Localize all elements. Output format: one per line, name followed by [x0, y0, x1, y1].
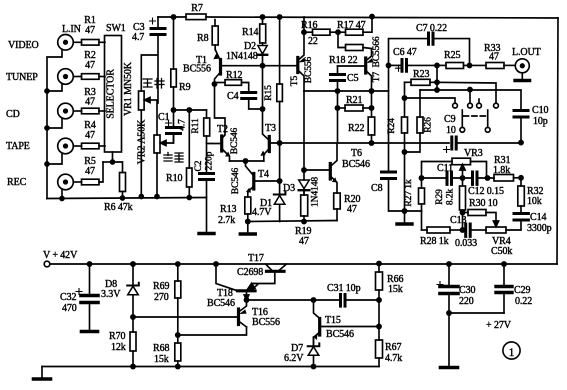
- ground C30: [448, 313, 450, 366]
- svg-text:R18 22: R18 22: [329, 55, 358, 66]
- svg-text:TAPE: TAPE: [6, 141, 30, 152]
- svg-text:C2: C2: [194, 160, 204, 171]
- svg-text:47: 47: [347, 204, 357, 215]
- svg-text:22: 22: [308, 36, 318, 47]
- wire bottom of first stage: [248, 221, 337, 222]
- ground first stage: [247, 222, 249, 233]
- svg-text:C30: C30: [459, 285, 475, 296]
- node T5 T7 emitter bus to D3: [303, 91, 305, 170]
- switch contact circles: [453, 103, 458, 108]
- svg-text:BC546: BC546: [207, 298, 235, 309]
- resistor R25: [437, 64, 446, 66]
- node rail-R17: [370, 15, 374, 19]
- wiper VR1 arrow: [149, 99, 157, 101]
- svg-text:8.2k: 8.2k: [446, 189, 456, 206]
- svg-text:10: 10: [446, 125, 456, 136]
- wire selector output to volume: [156, 100, 158, 135]
- wire T16 emitter bus: [178, 327, 247, 335]
- wire T5 T7 emitter bus: [304, 90, 389, 92]
- svg-text:1.8k: 1.8k: [493, 165, 510, 176]
- wire contact stub: [469, 90, 471, 104]
- svg-text:VIDEO: VIDEO: [8, 40, 39, 51]
- resistor R27: [419, 188, 425, 204]
- svg-text:R28 1k: R28 1k: [420, 236, 449, 247]
- svg-text:+ 27V: + 27V: [486, 320, 512, 331]
- resistor R8: [214, 20, 216, 26]
- svg-text:R25: R25: [444, 50, 460, 61]
- svg-text:BC556: BC556: [252, 317, 280, 328]
- node R15 feedback line: [278, 141, 282, 145]
- svg-text:1N4148: 1N4148: [311, 177, 321, 207]
- resistor R20: [334, 193, 341, 209]
- svg-text:15k: 15k: [388, 284, 403, 295]
- node D2 base line: [260, 64, 264, 68]
- node C10 bottom on feedback line: [519, 141, 523, 145]
- wiper VR2 arrow to C1: [166, 136, 174, 143]
- svg-text:R69: R69: [153, 281, 169, 292]
- node rail-R9: [171, 15, 175, 19]
- svg-text:R67: R67: [385, 342, 401, 353]
- resistor R68 15k: [176, 333, 180, 337]
- svg-text:0.033: 0.033: [455, 238, 477, 249]
- svg-text:R68: R68: [153, 343, 169, 354]
- jack L.OUT: [515, 59, 529, 73]
- wire switch feed upper: [437, 82, 496, 103]
- jack TAPE input: [58, 138, 74, 154]
- svg-text:REC: REC: [7, 177, 27, 188]
- svg-text:R12: R12: [226, 70, 242, 81]
- svg-text:C5: C5: [347, 73, 359, 84]
- svg-text:BC556: BC556: [183, 64, 211, 75]
- terminal V+42V: [44, 261, 50, 267]
- svg-text:15k: 15k: [154, 354, 169, 365]
- svg-text:BC546: BC546: [342, 159, 370, 170]
- wire T3 collector chain: [263, 66, 268, 139]
- ground L.OUT: [521, 73, 523, 79]
- svg-text:R17 47: R17 47: [337, 20, 366, 31]
- jack TUNEP input: [58, 69, 74, 85]
- resistor R33 47: [486, 63, 504, 69]
- capacitor C2: [200, 174, 214, 180]
- resistor R19: [303, 189, 305, 195]
- resistor R23: [405, 81, 412, 83]
- label volume 音量: [164, 153, 183, 163]
- svg-text:1N4148: 1N4148: [226, 51, 258, 62]
- svg-text:BC556: BC556: [304, 56, 314, 83]
- potentiometer VR2 track volume: [154, 135, 160, 153]
- resistor R16: [304, 31, 313, 33]
- wire T7 emitter to R21: [371, 91, 373, 108]
- svg-text:T5: T5: [290, 75, 300, 86]
- svg-text:T7: T7: [372, 71, 382, 82]
- wire jack ground bus: [47, 50, 62, 199]
- svg-text:T15: T15: [325, 315, 341, 326]
- svg-text:T3: T3: [265, 123, 276, 134]
- wire ground rail: [42, 366, 379, 368]
- svg-text:470: 470: [62, 303, 77, 314]
- svg-text:6.2V: 6.2V: [284, 353, 304, 364]
- wire C10 feed: [420, 90, 521, 109]
- svg-text:270: 270: [154, 292, 169, 303]
- resistor R26: [417, 117, 423, 133]
- wiper VR3 arrow: [462, 170, 464, 178]
- svg-text:R30 10: R30 10: [469, 198, 498, 209]
- potentiometer VR1 track: [139, 91, 145, 110]
- resistor R15: [277, 84, 283, 102]
- svg-text:C12 0.15: C12 0.15: [468, 186, 504, 197]
- svg-text:4.7k: 4.7k: [385, 353, 402, 364]
- svg-text:4.7: 4.7: [132, 32, 144, 43]
- svg-text:R13: R13: [220, 204, 236, 215]
- wire top V+ rail: [158, 16, 186, 18]
- svg-text:R9: R9: [179, 82, 191, 93]
- wire C1 node to R10 R11: [174, 109, 207, 111]
- svg-text:VR1 MN50K: VR1 MN50K: [123, 61, 134, 116]
- svg-text:R27 1k: R27 1k: [404, 179, 414, 206]
- svg-text:T6: T6: [351, 148, 362, 159]
- resistor R9: [173, 17, 175, 69]
- resistor R28 1k: [422, 229, 428, 231]
- svg-text:C14: C14: [530, 212, 546, 223]
- resistor R17: [346, 29, 364, 35]
- svg-text:T2: T2: [217, 124, 228, 135]
- resistor R29 8.2k: [462, 178, 464, 186]
- node VR1 bottom / bus: [139, 195, 143, 199]
- svg-text:R8: R8: [197, 33, 209, 44]
- wire C9 to C10 node: [458, 142, 521, 144]
- resistor R4: [73, 145, 81, 147]
- label balance 平衡: [143, 79, 164, 89]
- svg-text:R10: R10: [166, 173, 182, 184]
- wire T6 base: [304, 169, 329, 171]
- svg-text:12k: 12k: [111, 342, 126, 353]
- node T1 emitter R12: [212, 82, 216, 86]
- wiper VR4 arrow: [493, 221, 498, 227]
- resistor R3: [73, 110, 81, 112]
- svg-text:2.7k: 2.7k: [218, 215, 235, 226]
- wire R23 right vertical: [436, 65, 438, 90]
- svg-text:C4: C4: [227, 91, 239, 102]
- wire SW1 output: [113, 152, 123, 173]
- wire bottom V+42V rail: [50, 263, 557, 265]
- svg-text:CD: CD: [6, 109, 20, 120]
- resistor R12: [215, 82, 226, 84]
- svg-text:BC546: BC546: [326, 329, 354, 340]
- svg-text:R14: R14: [242, 27, 258, 38]
- resistor R22: [368, 117, 375, 135]
- wire R24 R26 to ground: [404, 152, 406, 222]
- node T18 base feed: [214, 262, 218, 266]
- wire R29 down to C13 row: [462, 213, 464, 231]
- svg-text:220: 220: [459, 296, 474, 307]
- svg-text:C9: C9: [444, 114, 456, 125]
- wire right border of supply loop: [557, 18, 558, 264]
- svg-text:10k: 10k: [527, 196, 542, 207]
- resistor R11: [206, 110, 208, 118]
- resistor R13: [245, 197, 251, 214]
- svg-text:TUNEP: TUNEP: [6, 72, 38, 83]
- svg-text:R6 47k: R6 47k: [104, 202, 133, 213]
- svg-text:10p: 10p: [533, 116, 548, 127]
- wire VR3 left to R27: [422, 162, 453, 189]
- resistor R5 to REC: [73, 181, 81, 183]
- wire T1 emitter down to T2 collector: [215, 84, 226, 132]
- resistor R69 270: [177, 264, 179, 281]
- wire output node: [247, 299, 314, 301]
- resistor R67 4.7k: [378, 300, 380, 340]
- resistor R32 10k: [520, 178, 522, 186]
- wire input section bottom bus: [47, 198, 206, 199]
- wire C6 C8 vertical: [388, 65, 390, 170]
- svg-text:R24: R24: [387, 118, 397, 134]
- svg-text:R7: R7: [191, 3, 203, 14]
- wire T2 T3 emitters: [230, 160, 264, 162]
- svg-text:L.OUT: L.OUT: [512, 47, 541, 58]
- svg-text:R15: R15: [264, 85, 274, 101]
- capacitor C12: [453, 177, 471, 179]
- svg-text:R26: R26: [424, 117, 434, 133]
- svg-text:C2698: C2698: [237, 267, 263, 278]
- resistor R2: [73, 76, 81, 78]
- svg-text:47: 47: [85, 166, 95, 177]
- jack CD input: [58, 103, 74, 119]
- svg-text:C32: C32: [60, 292, 76, 303]
- resistor R31 1.8k: [494, 175, 514, 182]
- potentiometer VR4 C50k: [486, 227, 506, 233]
- node rail-R14: [260, 15, 264, 19]
- jack REC input: [58, 174, 74, 190]
- resistor R30 10: [463, 212, 469, 214]
- svg-text:0.22: 0.22: [515, 296, 532, 307]
- wire R27 bottom bus: [405, 210, 422, 212]
- wire C5 node down to T6 collector: [337, 91, 339, 143]
- resistor R24: [402, 117, 408, 133]
- node R9/C1: [171, 108, 175, 112]
- svg-text:SELECTOR: SELECTOR: [106, 69, 117, 119]
- resistor R21: [338, 107, 346, 109]
- svg-text:T17: T17: [248, 253, 264, 264]
- wire switch feed lower: [405, 98, 456, 103]
- resistor R14: [262, 17, 264, 24]
- resistor R10: [188, 110, 190, 168]
- resistor R1: [73, 41, 81, 43]
- chain rail to R15 to T4: [279, 17, 281, 84]
- ground input bus: [206, 198, 208, 233]
- svg-text:47: 47: [299, 236, 309, 247]
- node VR2 bottom / bus: [155, 195, 159, 199]
- svg-text:SW1: SW1: [106, 23, 126, 34]
- svg-text:R22: R22: [348, 123, 364, 134]
- wire D8 to T16 base: [133, 316, 237, 318]
- svg-text:C31 10p: C31 10p: [327, 283, 361, 294]
- ground main: [34, 377, 51, 381]
- svg-text:C10: C10: [532, 105, 548, 116]
- svg-text:R70: R70: [109, 331, 125, 342]
- svg-text:1: 1: [509, 347, 515, 359]
- svg-text:L.IN: L.IN: [62, 24, 81, 35]
- svg-text:T4: T4: [258, 169, 269, 180]
- svg-text:C29: C29: [514, 285, 530, 296]
- switch SW1 selector box: [105, 36, 122, 153]
- svg-text:R29: R29: [435, 189, 445, 205]
- resistor R6: [120, 173, 126, 192]
- svg-text:3300p: 3300p: [527, 223, 552, 234]
- node rail-R15chain: [278, 15, 282, 19]
- svg-text:D3: D3: [283, 183, 295, 194]
- svg-text:C13: C13: [450, 215, 466, 226]
- svg-text:C50k: C50k: [491, 246, 512, 257]
- resistor R7: [186, 14, 206, 20]
- svg-text:R21: R21: [346, 95, 362, 106]
- svg-text:C8: C8: [371, 183, 383, 194]
- svg-text:V + 42V: V + 42V: [43, 250, 78, 261]
- svg-text:47: 47: [85, 97, 95, 108]
- resistor R70 12k: [130, 332, 136, 351]
- svg-text:4.7: 4.7: [178, 119, 188, 131]
- svg-text:VR3: VR3: [464, 148, 483, 159]
- symbol circled 1: [503, 342, 520, 359]
- svg-text:4.7V: 4.7V: [252, 207, 272, 218]
- svg-text:BC546: BC546: [231, 167, 241, 194]
- svg-text:47: 47: [85, 60, 95, 71]
- svg-text:R11: R11: [191, 118, 201, 134]
- resistor R66 15k: [377, 261, 381, 265]
- svg-text:R23: R23: [413, 69, 429, 80]
- svg-text:C1: C1: [158, 112, 170, 123]
- svg-text:BC5566: BC5566: [372, 36, 382, 67]
- svg-text:47: 47: [85, 130, 95, 141]
- svg-text:C6 47: C6 47: [393, 47, 417, 58]
- jack VIDEO input: [58, 35, 74, 51]
- switch gang dashed link: [464, 115, 487, 117]
- switch poles: [461, 110, 463, 127]
- svg-text:220p: 220p: [205, 151, 215, 170]
- svg-text:BC546: BC546: [230, 127, 240, 154]
- svg-text:47: 47: [85, 25, 95, 36]
- svg-text:VR2 A50K: VR2 A50K: [137, 119, 148, 164]
- svg-text:3.3V: 3.3V: [101, 289, 121, 300]
- wire feedback line to T3 base: [271, 142, 449, 144]
- resistor R18: [338, 32, 346, 47]
- wire +27V node: [449, 312, 504, 314]
- svg-text:47: 47: [489, 52, 499, 63]
- node T4 base: [278, 179, 282, 183]
